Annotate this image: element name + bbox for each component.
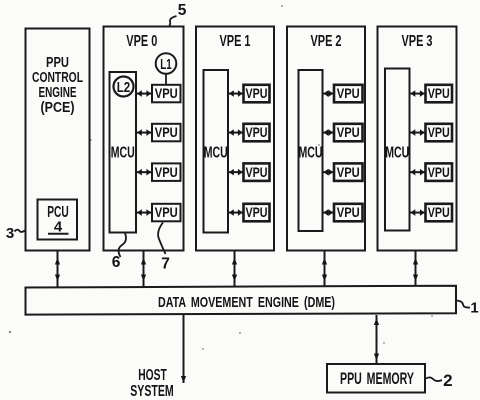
VPU 1 label (VPE 1) <box>246 85 268 101</box>
svg-text:1: 1 <box>470 300 478 317</box>
VPU box 3 of VPE 0 <box>152 163 181 181</box>
PCU box <box>38 200 78 240</box>
VPU box 1 of VPE 1 <box>244 85 270 103</box>
arrow MCU to VPU 3 (VPE 1) <box>229 169 243 176</box>
VPU 4 label (VPE 0) <box>155 204 178 220</box>
arrow MCU to VPU 1 (VPE 1) <box>229 90 243 97</box>
vertical arrow VPE 1 to DME <box>232 251 237 287</box>
svg-text:VPU: VPU <box>428 85 450 101</box>
arrow MCU to VPU 4 (VPE 2) <box>324 209 334 216</box>
svg-text:L1: L1 <box>160 56 172 73</box>
VPU box 2 of VPE 2 <box>334 124 363 142</box>
svg-text:MCU: MCU <box>299 145 323 162</box>
VPU box 1 of VPE 2 <box>334 85 363 103</box>
PPU Control Engine box (PCE) <box>26 29 90 251</box>
svg-text:VPU: VPU <box>428 204 450 220</box>
VPU 2 label (VPE 1) <box>246 124 268 140</box>
svg-text:PPU: PPU <box>46 55 69 71</box>
arrow MCU to VPU 1 (VPE 2) <box>324 90 334 97</box>
svg-text:CONTROL: CONTROL <box>32 70 83 86</box>
VPE 0 label <box>126 33 157 50</box>
MCU box of VPE 1 <box>204 70 229 233</box>
svg-text:VPU: VPU <box>337 204 360 220</box>
arrow MCU to VPU 1 (VPE 3) <box>411 90 425 97</box>
arrow MCU to VPU 4 (VPE 3) <box>411 209 425 216</box>
arrow MCU to VPU 3 (VPE 2) <box>324 169 334 176</box>
svg-text:2: 2 <box>443 371 452 390</box>
VPU 1 label (VPE 2) <box>337 85 360 101</box>
svg-text:VPU: VPU <box>246 164 268 180</box>
reference numeral 2 <box>443 371 452 390</box>
VPE 3 box <box>378 27 457 251</box>
reference numeral 4 <box>54 219 63 236</box>
VPU 4 label (VPE 3) <box>428 204 450 220</box>
VPU 1 label (VPE 3) <box>428 85 450 101</box>
svg-text:VPU: VPU <box>337 124 360 140</box>
svg-text:VPE 2: VPE 2 <box>311 33 342 50</box>
svg-text:VPU: VPU <box>246 124 268 140</box>
VPU box 2 of VPE 1 <box>244 124 270 142</box>
VPE 3 label <box>402 33 433 50</box>
MCU box of VPE 0 <box>110 72 137 233</box>
svg-text:VPE 0: VPE 0 <box>126 33 157 50</box>
PPU MEMORY label <box>340 370 414 388</box>
PPU CONTROL ENGINE (PCE) label <box>32 55 83 116</box>
svg-text:VPU: VPU <box>155 204 178 220</box>
L2 label <box>117 79 131 96</box>
svg-text:ENGINE: ENGINE <box>39 85 77 101</box>
arrow MCU to VPU 2 (VPE 1) <box>229 129 243 136</box>
svg-text:SYSTEM: SYSTEM <box>130 383 174 400</box>
reference numeral 1 <box>470 300 478 317</box>
svg-text:HOST: HOST <box>138 367 167 384</box>
VPU 4 label (VPE 2) <box>337 204 360 220</box>
vertical arrow VPE 0 to DME <box>141 251 146 287</box>
DATA MOVEMENT ENGINE (DME) label <box>158 294 335 311</box>
reference numeral 5 <box>178 2 187 19</box>
leader squiggle from MCU of VPE 0 to numeral 6 <box>119 233 126 257</box>
VPE 1 box <box>196 27 274 251</box>
VPU 1 label (VPE 0) <box>155 85 178 101</box>
leader squiggle from VPU 4 of VPE 0 to numeral 7 <box>158 223 165 255</box>
svg-text:MCU: MCU <box>204 145 228 162</box>
VPU 2 label (VPE 2) <box>337 124 360 140</box>
VPU box 3 of VPE 3 <box>426 163 453 181</box>
svg-text:VPU: VPU <box>246 85 268 101</box>
svg-text:MCU: MCU <box>385 145 409 162</box>
svg-text:L2: L2 <box>117 79 131 96</box>
scan noise specks <box>9 5 433 349</box>
VPU 2 label (VPE 0) <box>155 124 178 140</box>
VPE 1 label <box>220 33 251 50</box>
PCU label <box>47 204 69 221</box>
reference numeral 3 <box>6 225 14 242</box>
leader tilde from PPU memory to numeral 2 <box>426 377 442 381</box>
arrow MCU to VPU 1 (VPE 0) <box>137 90 151 97</box>
svg-text:5: 5 <box>178 2 187 19</box>
arrow DME to host system <box>181 315 186 383</box>
L1 label <box>160 56 172 73</box>
arrow MCU to VPU 4 (VPE 0) <box>137 209 151 216</box>
MCU box of VPE 3 <box>385 69 410 231</box>
svg-text:VPU: VPU <box>155 124 178 140</box>
underline of numeral 4 <box>48 233 69 235</box>
svg-text:VPU: VPU <box>428 124 450 140</box>
wire from L1 circle to first VPU of VPE 0 <box>165 74 167 86</box>
PPU memory box <box>327 364 425 393</box>
svg-text:VPU: VPU <box>246 204 268 220</box>
VPE 0 box <box>104 27 184 251</box>
VPU box 3 of VPE 2 <box>334 163 363 181</box>
MCU label of VPE 2 <box>299 145 323 162</box>
VPU box 3 of VPE 1 <box>244 163 270 181</box>
MCU label of VPE 0 <box>111 145 135 162</box>
arrow MCU to VPU 2 (VPE 0) <box>137 129 151 136</box>
VPU 4 label (VPE 1) <box>246 204 268 220</box>
reference numeral 7 <box>161 256 170 273</box>
leader squiggle from numeral 5 to VPE 0 box <box>170 16 177 27</box>
vertical arrow DME to PPU memory <box>374 315 379 364</box>
svg-text:PPU MEMORY: PPU MEMORY <box>340 370 414 388</box>
VPU box 4 of VPE 3 <box>426 204 453 222</box>
svg-text:VPE 1: VPE 1 <box>220 33 251 50</box>
MCU label of VPE 3 <box>385 145 409 162</box>
svg-text:VPU: VPU <box>155 164 178 180</box>
arrow MCU to VPU 2 (VPE 2) <box>324 129 334 136</box>
svg-text:MCU: MCU <box>111 145 135 162</box>
VPE 2 label <box>311 33 342 50</box>
svg-text:VPU: VPU <box>155 85 178 101</box>
reference numeral 6 <box>112 254 121 271</box>
leader squiggle from numeral 3 to PCE box <box>15 230 26 232</box>
VPU box 2 of VPE 3 <box>426 124 453 142</box>
vertical arrow VPE 3 to DME <box>413 251 418 287</box>
MCU box of VPE 2 <box>299 70 323 231</box>
arrow MCU to VPU 3 (VPE 3) <box>411 169 425 176</box>
MCU label of VPE 1 <box>204 145 228 162</box>
VPU 2 label (VPE 3) <box>428 124 450 140</box>
svg-text:VPU: VPU <box>428 164 450 180</box>
arrow MCU to VPU 3 (VPE 0) <box>137 169 151 176</box>
VPU 3 label (VPE 3) <box>428 164 450 180</box>
L2 cache circle in VPE 0 <box>114 77 134 97</box>
svg-text:7: 7 <box>161 256 170 273</box>
VPE 2 box <box>287 27 365 251</box>
svg-text:6: 6 <box>112 254 121 271</box>
svg-text:VPE 3: VPE 3 <box>402 33 433 50</box>
arrow MCU to VPU 2 (VPE 3) <box>411 129 425 136</box>
svg-text:3: 3 <box>6 225 14 242</box>
VPU 3 label (VPE 0) <box>155 164 178 180</box>
leader squiggle from DME to numeral 1 <box>457 301 471 308</box>
VPU box 4 of VPE 2 <box>334 204 363 222</box>
svg-text:VPU: VPU <box>337 164 360 180</box>
L1 cache circle in VPE 0 <box>156 53 177 74</box>
svg-text:DATA MOVEMENT ENGINE (DME): DATA MOVEMENT ENGINE (DME) <box>158 294 335 311</box>
VPU box 4 of VPE 1 <box>244 204 270 222</box>
HOST SYSTEM label <box>130 367 174 400</box>
svg-text:(PCE): (PCE) <box>41 100 75 116</box>
VPU 3 label (VPE 1) <box>246 164 268 180</box>
vertical arrow PCE to DME <box>55 251 60 287</box>
Data Movement Engine box <box>26 286 457 315</box>
VPU box 2 of VPE 0 <box>152 124 181 142</box>
VPU box 1 of VPE 0 <box>152 85 181 103</box>
vertical arrow VPE 2 to DME <box>322 251 327 287</box>
svg-text:VPU: VPU <box>337 85 360 101</box>
arrow MCU to VPU 4 (VPE 1) <box>229 209 243 216</box>
VPU box 1 of VPE 3 <box>426 85 453 103</box>
VPU 3 label (VPE 2) <box>337 164 360 180</box>
VPU box 4 of VPE 0 <box>152 204 181 222</box>
